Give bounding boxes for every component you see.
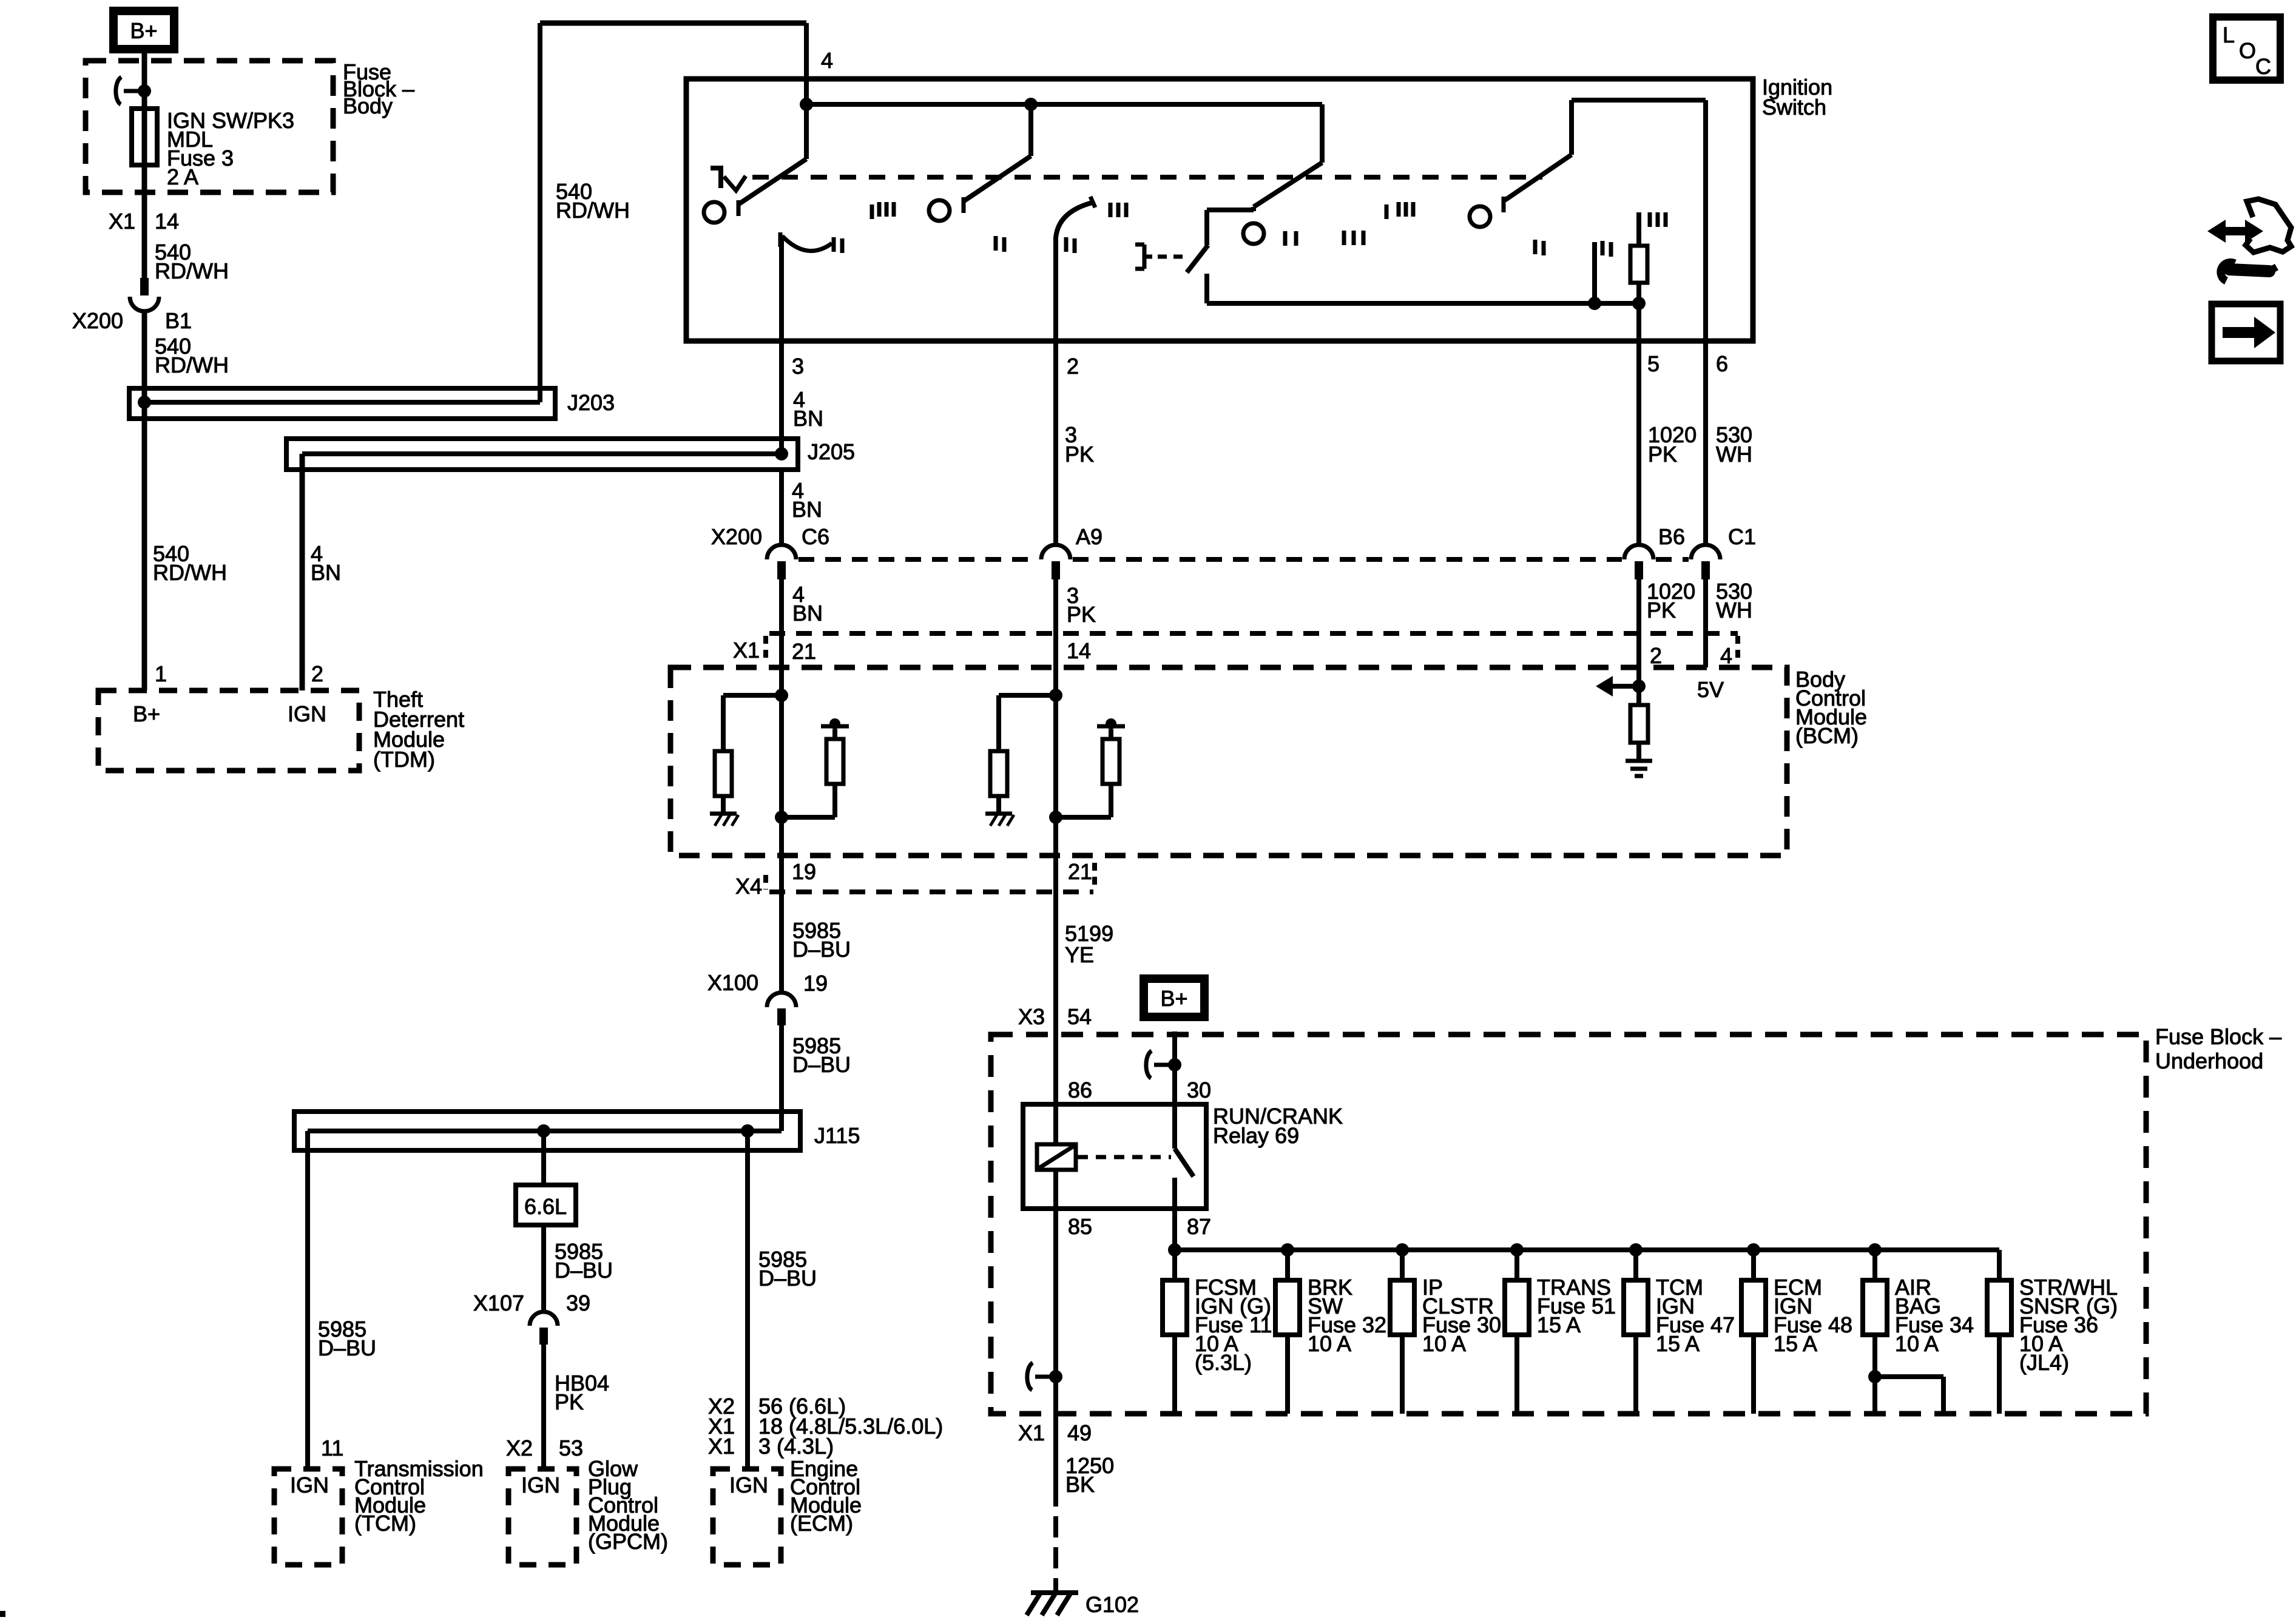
svg-text:X2: X2 [506,1436,533,1460]
svg-text:85: 85 [1068,1214,1092,1239]
svg-text:4: 4 [1720,643,1732,668]
svg-text:J115: J115 [814,1123,860,1148]
svg-text:Fuse Block –: Fuse Block – [2155,1024,2281,1049]
svg-text:15 A: 15 A [1656,1331,1700,1356]
svg-text:87: 87 [1187,1214,1211,1239]
svg-text:D–BU: D–BU [758,1266,817,1291]
svg-text:X1: X1 [708,1434,735,1459]
svg-text:B1: B1 [165,308,192,333]
svg-text:86: 86 [1068,1078,1092,1102]
svg-text:3: 3 [792,354,804,379]
svg-text:RD/WH: RD/WH [155,353,229,377]
svg-text:10 A: 10 A [1308,1331,1351,1356]
svg-text:A9: A9 [1076,524,1102,549]
svg-text:(GPCM): (GPCM) [588,1529,668,1554]
svg-text:PK: PK [1067,602,1096,627]
svg-text:IGN: IGN [521,1473,560,1497]
svg-text:X200: X200 [711,524,762,549]
svg-text:PK: PK [1648,442,1677,467]
svg-text:B+: B+ [1160,986,1187,1011]
svg-text:G102: G102 [1086,1592,1139,1617]
svg-text:B6: B6 [1658,524,1685,549]
svg-text:49: 49 [1067,1420,1092,1445]
svg-text:BN: BN [793,406,823,431]
svg-text:30: 30 [1187,1078,1211,1102]
svg-text:D–BU: D–BU [792,937,851,962]
svg-text:15 A: 15 A [1537,1312,1581,1337]
svg-text:IGN: IGN [288,701,326,726]
svg-text:BK: BK [1065,1472,1095,1497]
svg-text:(BCM): (BCM) [1795,723,1859,748]
svg-text:L: L [2223,22,2235,47]
svg-text:WH: WH [1716,442,1752,467]
svg-text:4: 4 [821,48,833,73]
svg-text:6: 6 [1716,351,1728,376]
svg-text:B+: B+ [130,18,157,43]
svg-text:1: 1 [155,661,167,686]
svg-text:X1: X1 [733,638,760,663]
svg-text:Relay 69: Relay 69 [1213,1123,1299,1148]
svg-text:IGN: IGN [290,1473,329,1497]
svg-text:14: 14 [155,209,179,234]
svg-text:2: 2 [1650,643,1662,668]
svg-text:RD/WH: RD/WH [556,198,630,223]
svg-text:2 A: 2 A [167,164,198,189]
svg-text:PK: PK [555,1389,584,1414]
svg-text:BN: BN [792,601,823,626]
svg-text:39: 39 [566,1291,590,1315]
svg-text:RD/WH: RD/WH [153,560,227,585]
svg-text:(ECM): (ECM) [790,1511,853,1536]
svg-text:11: 11 [321,1436,343,1460]
svg-text:J203: J203 [567,390,615,415]
svg-text:3 (4.3L): 3 (4.3L) [758,1434,834,1459]
svg-text:6.6L: 6.6L [524,1194,567,1219]
svg-text:O: O [2239,38,2256,63]
svg-text:(5.3L): (5.3L) [1195,1350,1252,1375]
svg-text:21: 21 [1068,859,1092,884]
svg-text:15 A: 15 A [1774,1331,1817,1356]
svg-text:BN: BN [311,560,341,585]
svg-text:53: 53 [559,1436,583,1460]
svg-text:Switch: Switch [1762,95,1826,120]
svg-text:X3: X3 [1018,1004,1045,1029]
svg-text:19: 19 [792,859,816,884]
svg-text:X4: X4 [735,874,762,899]
svg-text:D–BU: D–BU [555,1258,613,1283]
svg-text:PK: PK [1065,442,1094,467]
svg-text:5V: 5V [1697,677,1724,702]
svg-text:C1: C1 [1728,524,1756,549]
svg-text:RD/WH: RD/WH [155,258,229,283]
svg-text:Body: Body [343,93,393,118]
svg-text:10 A: 10 A [1422,1331,1466,1356]
svg-text:J205: J205 [808,439,855,464]
svg-text:X1: X1 [109,209,135,234]
svg-text:X107: X107 [473,1291,524,1315]
svg-text:54: 54 [1067,1004,1092,1029]
svg-text:X1: X1 [1018,1420,1045,1445]
svg-text:14: 14 [1067,638,1091,663]
svg-text:10 A: 10 A [1895,1331,1939,1356]
svg-text:2: 2 [1067,354,1079,379]
svg-text:(JL4): (JL4) [2019,1350,2069,1375]
svg-text:WH: WH [1716,598,1752,623]
svg-text:BN: BN [792,497,822,522]
svg-text:(TCM): (TCM) [354,1511,416,1536]
svg-text:D–BU: D–BU [792,1052,851,1077]
svg-text:C6: C6 [802,524,829,549]
svg-text:19: 19 [803,971,828,996]
svg-text:5: 5 [1647,351,1660,376]
svg-text:IGN: IGN [729,1473,768,1497]
svg-text:21: 21 [792,639,816,664]
svg-text:2: 2 [311,661,323,686]
svg-text:C: C [2255,54,2271,79]
svg-text:X200: X200 [72,308,123,333]
svg-text:D–BU: D–BU [318,1335,376,1360]
svg-text:X100: X100 [707,970,758,995]
svg-text:Underhood: Underhood [2155,1048,2263,1073]
svg-text:B+: B+ [133,701,160,726]
svg-text:PK: PK [1647,598,1676,623]
svg-text:(TDM): (TDM) [373,747,435,772]
svg-text:YE: YE [1065,942,1094,967]
